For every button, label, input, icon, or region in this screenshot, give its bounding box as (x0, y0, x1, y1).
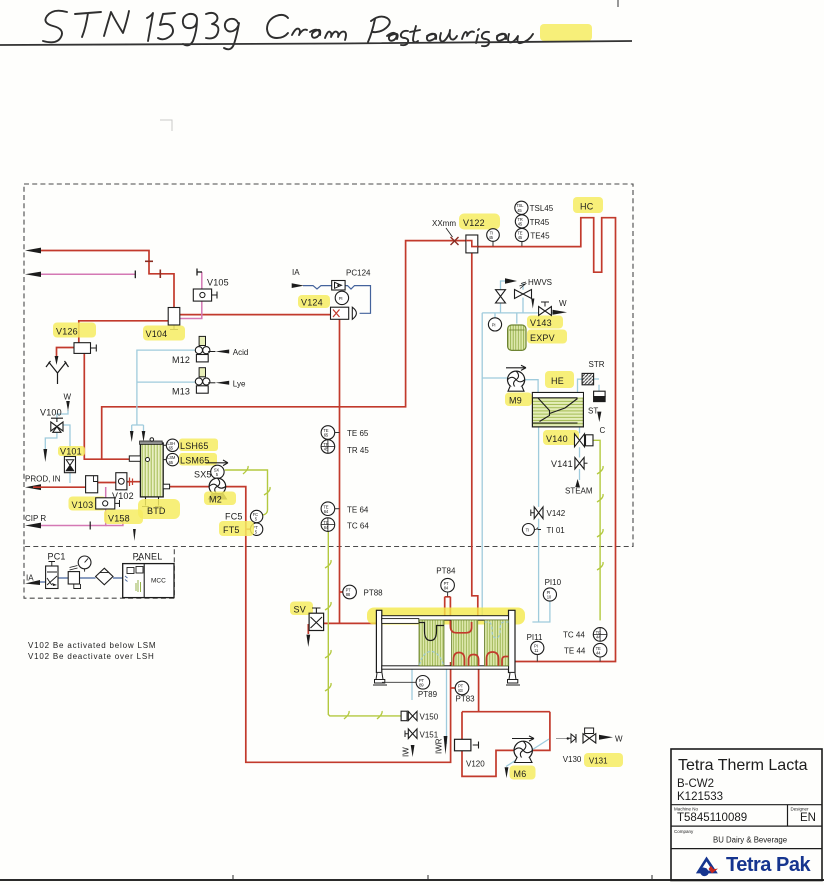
panel cabinet (123, 564, 174, 598)
svg-text:Machine No: Machine No (674, 807, 699, 812)
svg-text:V100: V100 (40, 408, 62, 418)
wire red V126 to drain funnel (57, 348, 75, 358)
valve V103 (86, 476, 98, 493)
wire pink drain branch right of V158 (106, 521, 123, 526)
wire dosing manifold M12 M13 (137, 350, 196, 425)
wire red SV drain stub (308, 625, 312, 634)
svg-text:V124: V124 (301, 298, 323, 308)
svg-text:V143: V143 (530, 318, 552, 328)
dosing pump M13 (172, 368, 246, 397)
arrow HWVS flow down (531, 299, 534, 309)
svg-text:W: W (559, 299, 567, 308)
svg-text:V104: V104 (146, 329, 168, 339)
svg-text:IA: IA (26, 574, 34, 583)
svg-text:PROD, IN: PROD, IN (25, 475, 61, 484)
instrument FC5 (250, 510, 262, 522)
wire M9 circulation loop (482, 313, 582, 393)
arrow W down to V100 (66, 401, 70, 411)
PHE yellow highlight band (367, 608, 525, 625)
arrow outlet left (top red) (25, 248, 41, 254)
valve V130 (571, 734, 576, 743)
wire V100 to V101 (62, 425, 70, 457)
svg-text:LSM65: LSM65 (180, 456, 210, 466)
svg-text:FT5: FT5 (223, 525, 240, 535)
valve V151 (408, 729, 417, 739)
svg-text:FC5: FC5 (225, 512, 243, 522)
handwritten title STN 1593g Cream Pasteuriser (43, 11, 533, 50)
X mark orifice on line (451, 237, 459, 245)
valve V101 check (58, 446, 85, 456)
arrow IA supply (292, 283, 304, 288)
svg-text:PC124: PC124 (346, 269, 371, 278)
svg-text:W: W (615, 735, 623, 744)
wire red V104 to V124 (180, 314, 331, 316)
svg-text:Company: Company (674, 829, 694, 834)
svg-text:PT84: PT84 (436, 567, 456, 576)
svg-text:PC1: PC1 (48, 552, 66, 562)
instrument LSM65 (166, 453, 178, 465)
tick marks near tank lower inlet (130, 478, 133, 487)
dosing pump M12 (172, 336, 248, 365)
svg-text:T5845110089: T5845110089 (677, 812, 747, 824)
PHE wave red section2 top (450, 621, 471, 633)
svg-text:PI: PI (492, 322, 496, 327)
svg-text:V140: V140 (546, 434, 568, 444)
arrow tank dosing down x2 (130, 431, 134, 442)
valve V131 (585, 728, 594, 734)
wire red V126 down to tank inlet (84, 353, 130, 459)
svg-text:V130: V130 (563, 755, 582, 764)
tank outlet stub (163, 484, 169, 489)
svg-text:V101: V101 (60, 447, 82, 457)
PHE plate pack section 2 (452, 620, 478, 666)
PHE carrying bar (382, 616, 509, 620)
wire red V122 jog drop to PHE (472, 253, 478, 619)
svg-text:V151: V151 (420, 731, 439, 740)
svg-text:TE 44: TE 44 (564, 647, 586, 656)
instrument TSL45 (515, 201, 528, 214)
wire HWVS header (482, 312, 556, 314)
svg-text:HWVS: HWVS (528, 278, 552, 287)
pump M9 fan (506, 365, 526, 370)
wire red FT5 stub (246, 528, 251, 530)
node TI45 stem (492, 241, 494, 246)
svg-text:K121533: K121533 (677, 791, 723, 803)
svg-text:V103: V103 (72, 500, 94, 510)
svg-text:EXPV: EXPV (530, 333, 555, 343)
title underline (0, 41, 632, 45)
instrument TI45 (487, 229, 500, 242)
wire drop to PHE gap2 (481, 378, 483, 619)
Tetra Pak logo icon (696, 857, 718, 877)
PHE wave blue dashed section3 top (485, 622, 509, 638)
instrument TI01 (522, 524, 534, 536)
PHE plate pack section 3 (485, 620, 509, 666)
expansion vessel EXPV (508, 325, 526, 350)
vent valve on riser (496, 290, 506, 303)
svg-text:XXmm: XXmm (432, 219, 456, 228)
instrument LSH65 (163, 445, 166, 459)
wire red top-left outlet line (33, 251, 174, 308)
svg-text:V158: V158 (108, 514, 130, 524)
valve V142 (534, 507, 543, 519)
svg-text:PT88: PT88 (364, 589, 384, 598)
wire red tank outlet through M2 down to bottom (169, 487, 450, 763)
svg-text:TI: TI (526, 528, 529, 533)
stray mark top right (617, 0, 619, 7)
arrow drain below V158 branch (133, 529, 136, 541)
svg-text:V122: V122 (463, 218, 485, 228)
svg-text:M2: M2 (209, 495, 222, 505)
tick V105 top (197, 269, 202, 276)
svg-text:STEAM: STEAM (565, 487, 593, 496)
svg-text:CIP R: CIP R (25, 514, 46, 523)
valve SV safety (290, 602, 313, 616)
arrow funnel inlet down (55, 356, 59, 365)
wire red V104 left to V126 (79, 321, 168, 343)
svg-text:STR: STR (589, 360, 605, 369)
arrow PROD IN left (25, 484, 41, 490)
dashed panel sub-box (24, 547, 174, 599)
regulator (68, 572, 79, 584)
instrument TR45 lower (321, 440, 335, 454)
wire green TC64 down to V150 (328, 532, 401, 716)
faint mark near (166,125) (160, 120, 172, 131)
tank BTD body (140, 443, 163, 497)
title block frame (671, 749, 822, 881)
svg-text:BU Dairy & Beverage: BU Dairy & Beverage (713, 836, 787, 845)
wire HE hot water down to PHE heating section (538, 427, 540, 622)
tick pink line end (134, 271, 136, 279)
gauge PI hot water (488, 318, 501, 331)
svg-text:V150: V150 (420, 713, 439, 722)
svg-text:V102 Be activated below LS: V102 Be activated below LSM (28, 641, 156, 650)
svg-text:V131: V131 (589, 757, 608, 766)
svg-text:IWR: IWR (435, 738, 444, 754)
wire dosing into tank top (132, 425, 144, 431)
wire M6 shaft diagonal (506, 739, 549, 767)
wire red PROD IN to V103 (33, 486, 86, 488)
arrow IWR down (444, 736, 448, 755)
instrument PT89 (382, 681, 416, 683)
wire pink CIP R return via V158 (35, 487, 106, 526)
steam trap ST (594, 391, 606, 396)
arrow V100 drain down (43, 449, 47, 462)
svg-text:V120: V120 (466, 760, 485, 769)
svg-text:Lye: Lye (233, 379, 246, 388)
wire red PT84 port pipe (445, 597, 451, 619)
PHE frame right column (509, 610, 516, 672)
instrument FT5 (250, 523, 262, 535)
dashed system boundary box (24, 184, 633, 547)
valve V104 (168, 308, 180, 326)
valve V158 (96, 498, 115, 509)
tick marks on green signal lines (243, 466, 603, 719)
instrument TR45 top (515, 215, 528, 228)
instrument PT88 (343, 585, 357, 599)
arrow IW down (411, 745, 415, 757)
valve V102 (116, 473, 127, 490)
wire pink top CIP line (33, 273, 135, 275)
wire water W to V100 (57, 410, 68, 418)
svg-text:Tetra Therm Lacta: Tetra Therm Lacta (678, 757, 808, 774)
solenoid valve PC1 (46, 566, 58, 589)
svg-text:LSH65: LSH65 (180, 441, 209, 451)
svg-text:TR45: TR45 (530, 218, 550, 227)
svg-text:TE 65: TE 65 (347, 429, 369, 438)
svg-text:V142: V142 (547, 509, 566, 518)
svg-text:M6: M6 (514, 769, 527, 779)
wire blue panel air line (40, 578, 123, 582)
junction tick marks on red lines (145, 261, 160, 278)
label HC highlighted (573, 197, 603, 213)
svg-text:C: C (600, 426, 606, 435)
wire red V122 to HC coil and right main riser (478, 218, 616, 662)
wire red PHE lower manifold to M6 loop (462, 666, 550, 776)
svg-text:B-CW2: B-CW2 (677, 778, 714, 790)
tick pink drain branch top (119, 520, 128, 522)
pump M2 with SX5 (206, 460, 228, 466)
svg-text:V102 Be deactivate over LS: V102 Be deactivate over LSH (28, 652, 155, 661)
sheet bottom border line (0, 879, 824, 881)
svg-text:PI11: PI11 (527, 633, 543, 642)
filter diamond (96, 568, 113, 585)
arrow acid left (215, 350, 229, 354)
valve V143 (527, 316, 563, 329)
tank legs (142, 497, 162, 507)
node PT83 stub (451, 687, 456, 689)
wire PHE bottom stub section1 (411, 670, 413, 701)
wire PI10 to PHE hot inlet (532, 601, 550, 622)
instrument TE45 (515, 228, 528, 241)
instrument TE64 (321, 502, 335, 516)
arrow lye left (215, 381, 229, 385)
wire pink V105 branch (180, 272, 202, 319)
svg-text:Acid: Acid (233, 348, 249, 357)
wire HWVS supply drop (522, 284, 524, 313)
svg-text:V126: V126 (56, 327, 78, 337)
wire blue PC124 pneumatic loop (303, 286, 371, 314)
node PI stem (494, 313, 496, 318)
svg-text:PT89: PT89 (418, 690, 438, 699)
svg-text:W: W (64, 393, 72, 402)
svg-text:M13: M13 (172, 387, 190, 397)
wire STR ST condensate (583, 379, 599, 391)
arrow condensate down (597, 412, 601, 422)
wire red main loop: tank tee up and across to V122 riser (102, 241, 466, 460)
svg-text:PI10: PI10 (545, 578, 562, 587)
tank inlet stub (129, 456, 140, 461)
svg-text:TE 64: TE 64 (347, 506, 369, 515)
svg-text:M9: M9 (509, 396, 522, 406)
svg-text:BTD: BTD (147, 506, 166, 516)
valve V140 with positioner (543, 430, 579, 445)
drain funnel (46, 361, 69, 384)
valve V126 (74, 343, 91, 354)
wire red V103 to V102 to tank (98, 481, 141, 484)
svg-text:V105: V105 (207, 278, 229, 288)
wire steam line segments at V140 V141 (579, 427, 581, 480)
PHE bottom rail (382, 666, 509, 669)
arrow SV drain down (306, 635, 310, 647)
svg-text:MCC: MCC (151, 578, 166, 585)
valve V122 (459, 214, 500, 230)
svg-text:V141: V141 (551, 459, 573, 469)
instrument TC64 (321, 518, 335, 532)
svg-text:TI 01: TI 01 (547, 526, 566, 535)
svg-text:TC 64: TC 64 (347, 522, 369, 531)
PHE feet (373, 673, 387, 685)
arrow steam up (575, 479, 580, 487)
wire V101 to product line (69, 473, 71, 483)
PHE wave blue dashed section1 bottom (420, 652, 444, 666)
PHE frame left column (376, 610, 381, 672)
svg-text:IW: IW (402, 747, 411, 757)
svg-text:TE45: TE45 (530, 231, 550, 240)
PHE wave red section2 bottom (454, 653, 479, 667)
svg-text:SV: SV (294, 605, 306, 615)
wire V130 connection thin (556, 738, 567, 740)
solenoid PC124 (332, 281, 345, 291)
sight glass V120 (455, 739, 471, 751)
pump M6 (512, 736, 534, 741)
wire red V124 drop to SV/PHE inlet (339, 319, 341, 623)
arrow pink top left (25, 272, 41, 277)
label BTD (138, 499, 180, 519)
valve V150 (401, 711, 407, 721)
arrow IA panel supply (25, 580, 40, 585)
node PT88 stub (340, 591, 343, 593)
PHE plate pack section 1 (419, 620, 444, 666)
wire green SX5 to FC5 signal (225, 470, 268, 515)
PHE wave black section1 top (419, 623, 444, 641)
PHE wave red section3 bottom (487, 652, 509, 666)
svg-text:Tetra Pak: Tetra Pak (726, 854, 811, 876)
wire green V140 to TC44 (589, 440, 601, 620)
wire V100 drain (45, 432, 57, 449)
node EXPV stem (516, 313, 518, 324)
arrow vent W right (HWVS area) (505, 278, 517, 284)
svg-text:TR 45: TR 45 (347, 446, 369, 455)
gauge on regulator (78, 556, 91, 569)
valve V105 (193, 289, 211, 301)
instrument PT83 (455, 681, 469, 695)
valve V124 with actuator (298, 295, 330, 308)
wire PHE bottom stub near IWR (446, 670, 448, 745)
heat exchanger HE (545, 371, 574, 388)
svg-text:EN: EN (800, 812, 816, 824)
svg-text:HC: HC (580, 202, 594, 212)
gauge PI on PC124 (335, 291, 348, 304)
wire red SV branch and PHE inlet (324, 622, 377, 624)
svg-text:PI: PI (339, 296, 343, 301)
arrow pink CIP left (25, 523, 41, 529)
title highlight blob (540, 24, 592, 41)
svg-text:SX5: SX5 (194, 470, 212, 480)
svg-text:IA: IA (292, 268, 300, 277)
svg-text:PT83: PT83 (456, 695, 476, 704)
instrument TE65 (321, 426, 335, 440)
svg-text:TSL45: TSL45 (530, 204, 554, 213)
arrow V143 W right (553, 310, 568, 315)
svg-text:M12: M12 (172, 355, 190, 365)
svg-text:ST: ST (588, 407, 598, 416)
svg-text:Designer: Designer (791, 807, 810, 812)
arrow M6 drain down (505, 767, 509, 778)
svg-text:HE: HE (551, 376, 564, 386)
arrow V131 W right (599, 735, 613, 740)
wire vent riser with valve (501, 281, 506, 313)
svg-text:TC 44: TC 44 (563, 631, 585, 640)
